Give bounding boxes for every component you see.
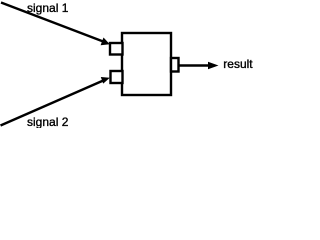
pin in2 [111,71,123,83]
svg-text:signal 2: signal 2 [27,115,69,128]
wire result [179,64,210,66]
arrowhead signal 2 [101,77,110,84]
pin out [171,58,179,72]
arrowhead signal 1 [101,38,110,46]
wire signal 2 [1,81,104,126]
pin in1 [110,43,123,55]
svg-text:signal 1: signal 1 [27,1,69,15]
component body U1 [122,33,171,95]
wire signal 1 [1,3,103,42]
arrowhead result [208,62,219,69]
svg-text:result: result [223,57,253,71]
